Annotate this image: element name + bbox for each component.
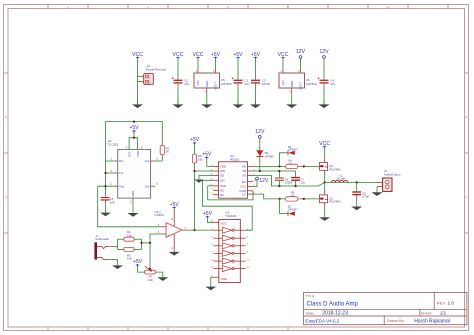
ground (below J2)	[132, 102, 143, 109]
svg-text:LM7812: LM7812	[306, 82, 317, 86]
svg-text:Out: Out	[145, 159, 150, 163]
inverter gate 1 (pins 1-2)	[212, 227, 249, 233]
junction dot	[133, 137, 135, 139]
ground (below U6)	[286, 94, 297, 109]
timer U1 TLC555	[108, 139, 159, 204]
svg-text:GND: GND	[131, 191, 135, 197]
power flag +5V (pot top)	[133, 259, 143, 267]
ground (below C3)	[250, 102, 261, 109]
connector J1 AudioJack	[94, 234, 109, 260]
svg-text:Thr: Thr	[119, 171, 123, 175]
wire	[323, 58, 325, 79]
power flag +5V (above R5)	[190, 137, 200, 145]
pin: LM393 V- to ground	[169, 234, 180, 256]
wire	[237, 60, 239, 80]
svg-text:VIN: VIN	[281, 81, 285, 86]
svg-text:TLC555: TLC555	[108, 143, 119, 147]
wire VCC down to U5 pin1	[197, 60, 199, 69]
wire: VCC to Q2 drain	[324, 149, 326, 158]
svg-text:10: 10	[386, 5, 390, 9]
svg-text:LIN: LIN	[220, 179, 225, 183]
capacitor C7 22u	[291, 177, 305, 186]
power flag 12V (above C4)	[319, 49, 329, 58]
svg-text:VCC: VCC	[221, 221, 227, 225]
wire: Q1 source to ground	[324, 205, 326, 217]
svg-text:+: +	[168, 234, 170, 238]
wire: comparator output node up to HIN	[195, 163, 214, 230]
power flag VCC (above U6 VIN)	[278, 52, 289, 60]
svg-text:UF4007: UF4007	[288, 208, 298, 212]
svg-text:AudioJack: AudioJack	[95, 237, 109, 241]
svg-text:12V: 12V	[319, 49, 329, 55]
svg-text:Harsh Rajkamal: Harsh Rajkamal	[414, 318, 450, 324]
wire: D5 to VB node	[259, 157, 261, 171]
wire: jack sleeve to ground	[108, 260, 118, 266]
svg-text:HIN: HIN	[220, 169, 225, 173]
junction (HIN node)	[193, 170, 195, 172]
wire: D2 bypass loop	[280, 199, 288, 214]
svg-text:Ctrl: Ctrl	[145, 184, 150, 188]
svg-text:GND: GND	[221, 277, 227, 281]
svg-text:220NF: 220NF	[285, 180, 294, 184]
wire: R6 to Q1 gate	[298, 198, 320, 200]
potentiometer R7 10k	[145, 266, 156, 282]
svg-text:LM393: LM393	[155, 213, 165, 217]
wire: R4 to Q2 gate	[298, 165, 320, 167]
wire: pot right to ground	[156, 272, 163, 277]
inverter gate 4 (pins 9-8)	[212, 250, 249, 256]
power flag 12V (bootstrap)	[255, 129, 265, 138]
svg-text:NC: NC	[220, 193, 224, 197]
svg-text:VB: VB	[242, 169, 246, 173]
svg-text:Sheet:: Sheet:	[421, 311, 432, 315]
svg-text:2k: 2k	[166, 150, 170, 154]
svg-text:10k: 10k	[127, 257, 132, 261]
svg-text:Drawn By:: Drawn By:	[387, 319, 405, 323]
svg-text:12V: 12V	[255, 129, 265, 135]
svg-text:B: B	[5, 115, 7, 119]
svg-text:IR2110: IR2110	[230, 157, 240, 161]
power flag +5V (above C3)	[251, 52, 261, 60]
junction dots on 555 net	[104, 121, 135, 188]
power flag VCC (above C2)	[173, 52, 184, 60]
resistor R5 10k (HIN pull-up)	[192, 145, 203, 163]
wire: +5V to pot	[138, 267, 145, 272]
regulator U5 LM7805	[194, 69, 232, 94]
gate driver U2 IR2110	[210, 154, 256, 198]
title block	[304, 292, 467, 324]
wire: +5V into pins 4 and 8 (pi shape)	[129, 133, 138, 149]
svg-text:74HC04: 74HC04	[225, 214, 236, 218]
ground (below C1)	[233, 102, 244, 109]
capacitor C8 4.7uF (output filter)	[352, 182, 369, 198]
wire: J3 pin2 to ground	[376, 187, 378, 193]
junction (output node)	[193, 229, 195, 231]
svg-text:4.7uF: 4.7uF	[362, 194, 369, 198]
junction dots (R4 ends)	[278, 165, 305, 167]
wire	[255, 84, 257, 102]
ground (C8)	[351, 207, 362, 211]
wire: 12V to D5	[259, 138, 261, 150]
svg-text:NC: NC	[242, 180, 246, 184]
svg-text:VOUT: VOUT	[214, 82, 218, 90]
wire: VS to half-bridge node	[253, 176, 377, 187]
ground (below C4)	[319, 102, 330, 109]
svg-text:Trig: Trig	[119, 184, 124, 188]
resistor R6 10 (low gate)	[286, 191, 298, 201]
ground (555 GND pin)	[128, 204, 139, 217]
diode D5 UF4007 (bootstrap)	[256, 150, 275, 158]
resistor R3 10k	[124, 247, 134, 260]
ground (below C5)	[100, 201, 111, 217]
svg-text:IRLZ44N: IRLZ44N	[329, 200, 340, 204]
svg-text:EasyEDA V4.5.2: EasyEDA V4.5.2	[305, 318, 339, 323]
svg-text:12V: 12V	[259, 178, 269, 184]
transistor Q2 IRLZ44N (high side)	[320, 158, 341, 173]
svg-text:UF4007: UF4007	[265, 155, 275, 159]
junction dots (VB node)	[259, 170, 281, 172]
wire	[177, 60, 179, 80]
power flag 12V (IR2110 VCC)	[253, 177, 269, 186]
svg-text:1.0: 1.0	[448, 301, 455, 306]
ground (Q1 source)	[319, 217, 330, 221]
junction dots (phase node)	[278, 181, 358, 187]
wire: +5V to VDD	[207, 159, 213, 166]
wire 12V down to U6 pin3	[300, 58, 302, 68]
inverter gate 2 (pins 3-4)	[212, 235, 249, 241]
wire: SD to ground	[199, 176, 213, 180]
svg-text:LM7805: LM7805	[221, 82, 232, 86]
power flag VCC (input net, feeds J2)	[132, 52, 143, 60]
svg-text:10k: 10k	[127, 233, 132, 237]
svg-text:VDD: VDD	[136, 151, 140, 157]
svg-text:B: B	[465, 115, 467, 119]
resistor R2 2k	[160, 145, 170, 155]
ground (J3)	[372, 192, 383, 196]
svg-text:RST: RST	[127, 151, 131, 157]
svg-text:VDD: VDD	[220, 165, 226, 169]
resistor R1 10k	[124, 230, 134, 241]
svg-text:Dis: Dis	[119, 159, 124, 163]
wire	[177, 84, 179, 102]
capacitor C2 47u	[172, 77, 190, 86]
power flag +5V (LM393 V+)	[170, 202, 180, 210]
svg-text:VS: VS	[242, 174, 246, 178]
power flag VCC (above Q2)	[319, 141, 330, 149]
svg-text:10: 10	[291, 193, 295, 197]
ground (below C2)	[173, 102, 184, 109]
regulator U6 LM7812	[279, 69, 317, 94]
svg-text:12V: 12V	[296, 49, 306, 55]
junction dots (R6 ends)	[279, 198, 305, 200]
svg-text:10k: 10k	[198, 157, 203, 161]
svg-text:VOUT: VOUT	[299, 82, 303, 90]
svg-text:47u: 47u	[184, 82, 189, 86]
resistor R4 10 (high gate)	[286, 159, 298, 169]
wire VCC to J2 and down	[138, 60, 140, 102]
wire: jack tip to resistors	[109, 239, 124, 249]
svg-text:220nF: 220nF	[262, 82, 271, 86]
capacitor C3 220nF	[251, 79, 270, 86]
pin: LM393 V+	[172, 210, 175, 227]
power flag +5V (above C1)	[233, 52, 243, 60]
power flag 12V (above U6 VOUT)	[296, 49, 306, 58]
transistor Q1 IRLZ44N (low side)	[320, 190, 341, 205]
power flag +5V (74HC04 VCC)	[203, 211, 213, 219]
wire: Q1 drain up to phase node	[324, 183, 326, 191]
wire: inverter output to LIN loop	[202, 180, 252, 230]
svg-text:1/1: 1/1	[440, 311, 447, 316]
ground (SD)	[194, 180, 203, 183]
wire: resistor outputs tied	[134, 239, 150, 269]
svg-text:GND: GND	[290, 81, 294, 87]
wire +5V down to U5 pin3	[215, 60, 217, 69]
wire: VB rail to bootstrap caps	[253, 171, 296, 177]
power flag VCC (above U5 VIN)	[193, 52, 204, 60]
op-amp U4.1 LM393	[155, 210, 187, 238]
inverter gate 3 (pins 5-6)	[212, 243, 249, 249]
power flag +5V (555 supply)	[129, 125, 139, 133]
wire: pin 7 to ground	[211, 277, 214, 286]
wire	[237, 84, 239, 102]
svg-text:2018-12-23: 2018-12-23	[322, 311, 348, 317]
svg-text:Date:: Date:	[306, 311, 315, 315]
svg-text:Class D Audio Amp: Class D Audio Amp	[307, 301, 359, 307]
connector J3 AudioOutput	[377, 169, 401, 191]
power flag +5V (IR2110 VDD)	[202, 152, 212, 160]
svg-text:47u: 47u	[330, 82, 335, 86]
wire: comparator plus input	[150, 234, 160, 243]
junction dots (input node)	[140, 242, 151, 270]
svg-text:1nF: 1nF	[110, 200, 115, 204]
ground (below U5)	[201, 94, 212, 109]
inverter gate 6 (pins 13-12)	[210, 266, 250, 272]
capacitor C6 220NF	[275, 177, 293, 186]
capacitor C4 47u	[318, 77, 336, 86]
wire: LM393 output to 74HC04 pin1	[187, 229, 214, 231]
diode D1 UF4007 (gate discharge, high)	[288, 145, 298, 155]
inverter gate 5 (pins 11-10)	[211, 258, 251, 264]
svg-text:10k: 10k	[148, 278, 153, 282]
connector J2 PowerTerminal	[140, 64, 166, 85]
svg-text:AudioOutput: AudioOutput	[384, 173, 401, 177]
wire: LO to R6	[253, 194, 286, 199]
diode D2 UF4007 (gate discharge, low)	[288, 205, 298, 216]
svg-text:PowerTerminal: PowerTerminal	[146, 67, 166, 71]
wire: C8 to ground	[356, 195, 358, 206]
svg-text:TITLE:: TITLE:	[306, 294, 315, 298]
wire: Q2 source to phase node	[324, 172, 326, 183]
capacitor C1 47u	[232, 77, 250, 86]
wire	[255, 60, 257, 80]
wire: D1 bypass loop	[279, 153, 288, 167]
svg-text:VSS: VSS	[220, 184, 226, 188]
svg-text:REV:: REV:	[437, 300, 446, 305]
svg-text:IRLZ44N: IRLZ44N	[329, 167, 340, 171]
svg-text:UF4007: UF4007	[288, 148, 298, 152]
ground (jack sleeve)	[112, 265, 123, 269]
ground (pot)	[157, 277, 168, 281]
svg-text:10: 10	[288, 161, 292, 165]
capacitor C5 1nF	[101, 186, 115, 204]
wire: VSS-COM tie loop	[208, 186, 253, 200]
svg-text:47u: 47u	[244, 82, 249, 86]
ground (74HC04)	[205, 287, 216, 291]
svg-text:22u: 22u	[300, 180, 305, 184]
inductor L1 16.5uH	[331, 174, 347, 183]
svg-text:HO: HO	[242, 165, 247, 169]
wire	[323, 84, 325, 102]
wire: +5V to pin 14	[207, 219, 213, 223]
svg-text:SD: SD	[220, 174, 224, 178]
svg-text:NC: NC	[220, 189, 224, 193]
wire VCC down to U6 pin1	[282, 60, 284, 69]
hex inverter U3 74HC04	[210, 211, 240, 283]
power flag +5V (above U5 VOUT)	[211, 52, 221, 60]
wire net: 555 feedback loop (top + left vertical + R2 drop)	[98, 122, 163, 191]
wire: Trig node to comparator minus input	[98, 186, 161, 227]
svg-text:VIN: VIN	[196, 81, 200, 86]
wire: HO to R4	[253, 165, 286, 167]
svg-text:GND: GND	[205, 81, 209, 87]
